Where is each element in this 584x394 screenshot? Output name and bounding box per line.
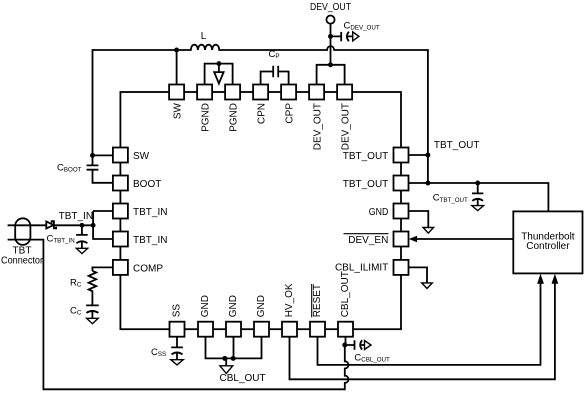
TBT connector (stadium shape)	[15, 218, 30, 245]
svg-text:BOOT: BOOT	[133, 179, 161, 190]
node: TBT_OUT2 junction	[425, 181, 430, 186]
svg-text:TBT_IN: TBT_IN	[59, 211, 93, 222]
terminal DEV_OUT (open circle)	[326, 16, 334, 24]
svg-text:PGND: PGND	[229, 103, 240, 132]
pin TBT_OUT (right 2)	[394, 176, 409, 191]
capacitor C_BOOT	[87, 155, 113, 182]
svg-text:CPP: CPP	[285, 103, 296, 124]
svg-text:RESET: RESET	[312, 284, 323, 317]
svg-text:SW: SW	[173, 102, 184, 119]
node: SW / C_BOOT junction	[90, 153, 95, 158]
pin TBT_OUT (right 1)	[394, 148, 409, 163]
svg-text:PGND: PGND	[201, 103, 212, 132]
pin RESET (bottom)	[310, 322, 325, 337]
diode D1 (schottky)	[46, 221, 56, 228]
pin TBT_IN (left 1)	[113, 204, 128, 219]
wire: CBL_OUT vertical with hops over RESET and HV_OK wires	[8, 240, 349, 390]
wire: DEV_EN from controller	[417, 238, 513, 240]
wire: junction to SW pin	[93, 154, 113, 156]
node: C_TBT_IN junction	[79, 223, 84, 228]
capacitor C_CBL_OUT (horizontal, to right-pointing ground)	[345, 340, 365, 350]
node: TBT_OUT1 junction	[425, 153, 430, 158]
wire: TBT_OUT2 to controller top	[409, 183, 549, 211]
pin GND (bottom 1)	[198, 322, 213, 337]
ground PGND (tall open triangle)	[214, 64, 223, 84]
svg-text:TBT_OUT: TBT_OUT	[343, 179, 389, 190]
resistor RC	[89, 271, 97, 306]
wire: branch to TBT_IN pins	[93, 211, 113, 239]
pin CPN (top)	[253, 85, 268, 100]
svg-text:CBL_OUT: CBL_OUT	[340, 271, 351, 317]
pin COMP (left)	[113, 260, 128, 275]
IC body outline	[120, 92, 401, 329]
capacitor C_TBT_IN (to ground)	[76, 225, 88, 248]
svg-text:Controller: Controller	[526, 241, 570, 252]
DEV_EN overline	[344, 233, 389, 235]
wire: RESET to controller	[318, 284, 541, 365]
ground (CBL_ILIMIT)	[422, 283, 433, 289]
wire: DEV_OUT stem up to terminal	[330, 24, 332, 65]
pin CBL_OUT (bottom)	[338, 322, 353, 337]
svg-text:DEV_OUT: DEV_OUT	[310, 2, 351, 13]
svg-text:TBT_IN: TBT_IN	[133, 235, 167, 246]
wire top net: SW node to inductor, hop over DEV_OUT stem, to right edge drop	[93, 45, 428, 183]
wire: connector top line to diode	[8, 224, 47, 226]
capacitor CP plates	[273, 66, 278, 77]
node: gnd junction 2	[231, 356, 236, 361]
svg-text:CBL_OUT: CBL_OUT	[220, 373, 266, 384]
capacitor CC (to ground)	[86, 305, 99, 318]
pin SW (top)	[169, 85, 184, 100]
node: C_DEV_OUT junction	[328, 34, 333, 39]
ground (bottom GND pins)	[225, 358, 227, 365]
node: DEV_OUT bracket junction	[328, 62, 333, 67]
svg-text:HV_OK: HV_OK	[284, 283, 295, 317]
svg-text:DEV_OUT: DEV_OUT	[313, 103, 324, 150]
pin SW (left)	[113, 148, 128, 163]
pin DEV_OUT (top 1)	[309, 85, 324, 100]
arrow into controller (HV_OK)	[552, 274, 559, 284]
pin HV_OK (bottom)	[282, 322, 297, 337]
pin DEV_EN (right)	[394, 232, 409, 247]
wire: HV_OK to controller	[290, 284, 555, 380]
ground (right GND pin)	[423, 228, 434, 234]
wire: right GND pin to ground	[409, 211, 429, 228]
wire: CBL_OUT pin down	[345, 337, 347, 345]
pin GND (bottom 3)	[254, 322, 269, 337]
node: PGND bracket junction	[216, 61, 221, 66]
node: TBT_IN branch junction	[91, 223, 96, 228]
node: C_CBL_OUT junction	[342, 343, 347, 348]
arrow into DEV_EN pin	[409, 236, 417, 243]
wire: DEV_OUT pins bracket	[317, 65, 345, 85]
capacitor C_DEV_OUT (horizontal, to right-pointing ground)	[331, 32, 353, 42]
svg-text:DEV_EN: DEV_EN	[348, 235, 388, 246]
wire: TBT_OUT1 to vertical	[409, 154, 428, 156]
svg-text:DEV_OUT: DEV_OUT	[341, 103, 352, 150]
wire: junction down to SW top pin	[176, 50, 178, 85]
arrow into controller (RESET)	[537, 274, 544, 284]
pin CBL_ILIMIT (right)	[394, 260, 409, 275]
svg-text:SS: SS	[172, 304, 183, 318]
capacitor C_SS (to ground)	[171, 337, 183, 360]
pin BOOT (left)	[113, 176, 128, 191]
svg-text:SW: SW	[133, 151, 150, 162]
svg-text:Connector: Connector	[1, 256, 44, 267]
pin GND (right)	[394, 204, 409, 219]
Thunderbolt Controller box	[513, 211, 582, 273]
node: gnd junction 1	[222, 356, 227, 361]
wire: CBL_ILIMIT to ground	[409, 267, 428, 283]
wire: diode to TBT_IN node	[54, 224, 93, 226]
pin CPP (top)	[281, 85, 296, 100]
svg-text:GND: GND	[228, 295, 239, 317]
svg-text:TBT_OUT: TBT_OUT	[343, 151, 389, 162]
pin DEV_OUT (top 2)	[337, 85, 352, 100]
pin PGND (top 1)	[197, 85, 212, 100]
svg-text:GND: GND	[200, 295, 211, 317]
capacitor C_TBT_OUT (to ground)	[472, 183, 483, 206]
svg-text:TBT_OUT: TBT_OUT	[434, 140, 480, 151]
pin TBT_IN (left 2)	[113, 232, 128, 247]
svg-text:CPN: CPN	[257, 103, 268, 124]
wire: GND pins to common ground	[206, 337, 262, 359]
svg-text:GND: GND	[369, 207, 389, 218]
node: C_TBT_OUT junction	[475, 181, 480, 186]
svg-text:TBT_IN: TBT_IN	[133, 207, 167, 218]
pin GND (bottom 2)	[226, 322, 241, 337]
wire: PGND pins bracket	[205, 64, 233, 85]
pin PGND (top 2)	[225, 85, 240, 100]
wire: COMP to Rc	[92, 267, 113, 270]
pin SS (bottom)	[170, 322, 185, 337]
node: inductor/SW junction	[174, 48, 179, 53]
svg-text:COMP: COMP	[133, 263, 163, 274]
svg-text:L: L	[201, 31, 207, 42]
svg-text:GND: GND	[256, 295, 267, 317]
capacitor CP bracket wires	[261, 72, 289, 85]
svg-text:CBL_ILIMIT: CBL_ILIMIT	[335, 263, 388, 274]
